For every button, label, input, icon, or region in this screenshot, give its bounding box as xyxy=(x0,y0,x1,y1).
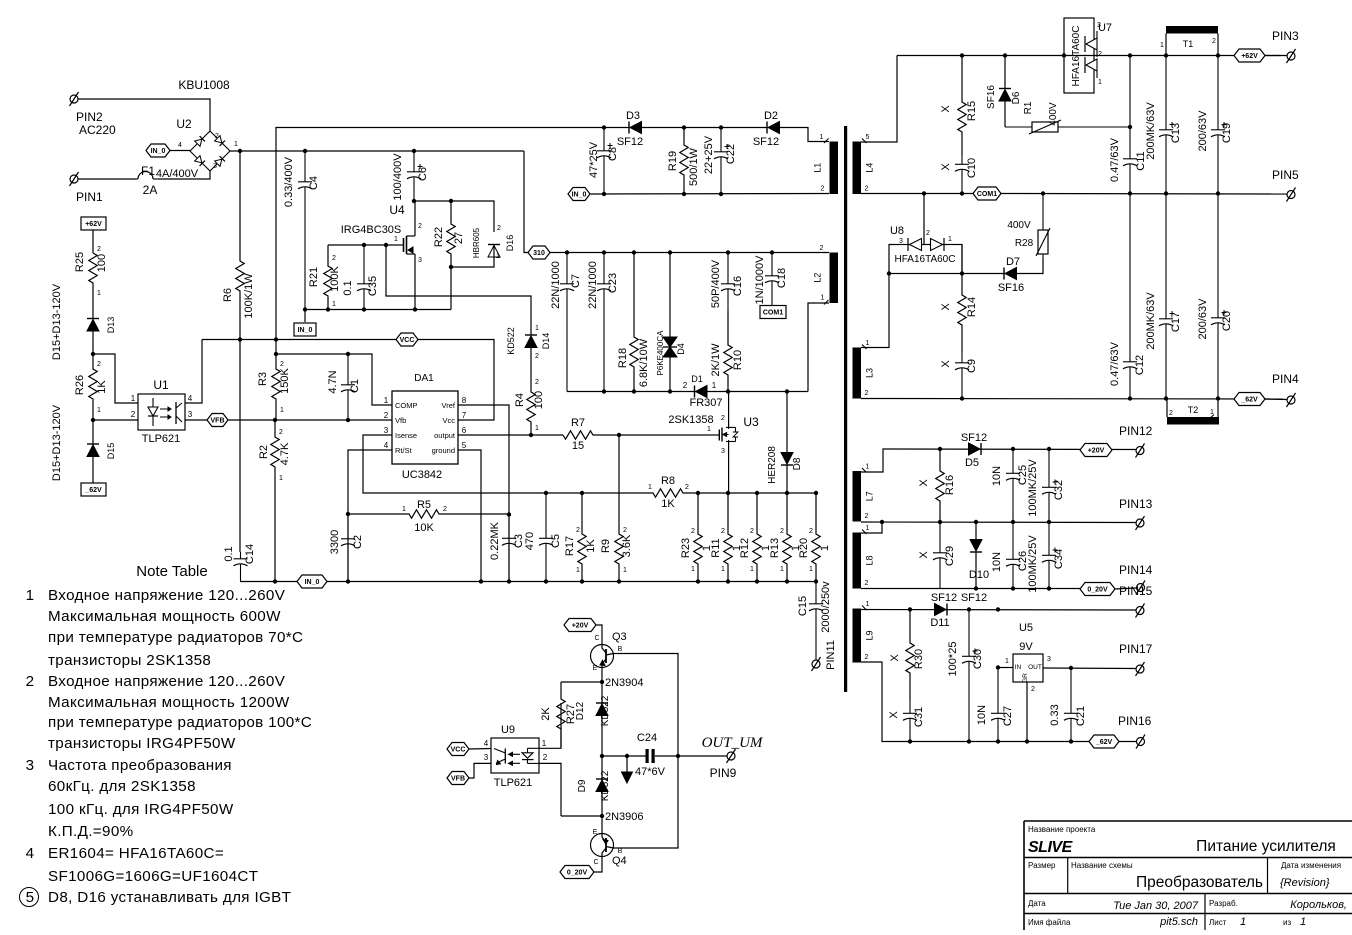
junction xyxy=(529,433,533,437)
svg-text:2: 2 xyxy=(332,255,336,262)
svg-text:C22: C22 xyxy=(725,144,737,164)
svg-text:60кГц. для 2SK1358: 60кГц. для 2SK1358 xyxy=(48,778,196,795)
svg-text:C27: C27 xyxy=(1002,706,1014,726)
svg-text:PIN4: PIN4 xyxy=(1272,372,1299,386)
pin 1 of R4 xyxy=(535,425,539,432)
label C23 xyxy=(607,273,619,293)
svg-text:D5: D5 xyxy=(965,457,979,469)
svg-text:L2: L2 xyxy=(813,273,823,283)
svg-text:X: X xyxy=(940,360,952,368)
svg-text:1: 1 xyxy=(821,295,825,302)
wire COM rail xyxy=(861,193,973,195)
svg-text:U3: U3 xyxy=(743,415,759,429)
power flag 0_20V driver xyxy=(560,866,594,879)
resistor R18 6.8K/10W xyxy=(630,253,638,392)
svg-text:Преобразователь: Преобразователь xyxy=(1136,874,1263,891)
value 10N of C26 xyxy=(991,552,1003,572)
svg-text:1: 1 xyxy=(535,325,539,332)
inductor L8 winding xyxy=(853,525,875,589)
value 1K of R17 xyxy=(585,539,597,553)
capacitor C11 0.47/63V xyxy=(1123,56,1137,194)
junction xyxy=(303,149,307,153)
label D16 xyxy=(505,235,515,252)
label X of C10 xyxy=(940,163,952,171)
terminal PIN17 xyxy=(1136,662,1145,676)
junction xyxy=(1069,666,1073,670)
diode D13 xyxy=(87,319,99,332)
svg-text:Корольков,: Корольков, xyxy=(1290,899,1347,911)
junction xyxy=(1128,53,1132,57)
capacitor C16 50P/400V xyxy=(721,253,735,311)
label R18 xyxy=(617,348,629,368)
svg-text:Максимальная мощность 1200W: Максимальная мощность 1200W xyxy=(48,694,290,711)
svg-text:0.1: 0.1 xyxy=(342,280,354,295)
junction xyxy=(726,389,730,393)
capacitor C17 200MK/63V xyxy=(1159,194,1175,399)
wire VCC flag to DA1 Vcc xyxy=(418,340,494,421)
pin 1 of R9 xyxy=(623,567,627,574)
label U2 xyxy=(176,117,192,131)
pin 1 of R17 xyxy=(576,567,580,574)
junction xyxy=(449,265,453,269)
label D11 xyxy=(930,617,949,629)
svg-text:F1: F1 xyxy=(141,164,155,178)
svg-text:E: E xyxy=(593,665,598,672)
svg-text:R3: R3 xyxy=(257,372,269,386)
junction xyxy=(632,389,636,393)
wire D10 column xyxy=(975,522,977,539)
junction xyxy=(580,491,584,495)
label C9 xyxy=(966,359,978,373)
svg-text:1: 1 xyxy=(535,425,539,432)
svg-text:X: X xyxy=(940,105,952,113)
pin 1 of U7 xyxy=(1098,79,1102,86)
svg-text:R16: R16 xyxy=(944,475,956,495)
svg-text:C23: C23 xyxy=(607,273,619,293)
junction xyxy=(682,192,686,196)
svg-text:200/63V: 200/63V xyxy=(1197,298,1209,340)
svg-text:2: 2 xyxy=(535,353,539,360)
label R26 xyxy=(74,375,86,395)
wire ground bus left xyxy=(240,581,297,583)
svg-text:+20V: +20V xyxy=(572,623,589,630)
svg-text:L4: L4 xyxy=(865,163,875,173)
svg-text:50P/400V: 50P/400V xyxy=(710,259,722,308)
MOSFET U3 2SK1358 xyxy=(707,392,738,494)
svg-text:C12: C12 xyxy=(1134,355,1146,375)
junction xyxy=(996,607,1000,611)
junction xyxy=(273,579,277,583)
junction xyxy=(1003,53,1007,57)
resistor R23 1 xyxy=(694,493,702,582)
svg-text:C4: C4 xyxy=(308,176,320,190)
value TLP621 of U1 xyxy=(142,433,181,445)
label T2 xyxy=(1188,405,1199,415)
svg-text:4: 4 xyxy=(484,739,489,748)
svg-text:2K: 2K xyxy=(540,707,552,721)
svg-text:R6: R6 xyxy=(222,288,234,302)
wire DA1 output line xyxy=(458,434,563,436)
svg-text:100K: 100K xyxy=(329,265,341,291)
svg-text:Note Table: Note Table xyxy=(136,563,207,580)
pin 2 of U1 xyxy=(131,410,136,419)
junction xyxy=(696,579,700,583)
svg-text:B: B xyxy=(618,646,623,653)
value 100K of R21 xyxy=(329,265,341,291)
wire D12 top lead xyxy=(601,682,603,703)
svg-text:Tue Jan 30, 2007: Tue Jan 30, 2007 xyxy=(1113,900,1199,912)
svg-text:1: 1 xyxy=(26,587,35,604)
svg-text:4: 4 xyxy=(178,142,182,149)
capacitor C30 100*25 xyxy=(962,610,978,742)
svg-text:2: 2 xyxy=(1098,51,1102,58)
svg-text:P6KE400CA: P6KE400CA xyxy=(656,330,665,376)
value 0.47/63V of C11 xyxy=(1109,137,1121,182)
pin 2 of U2 xyxy=(215,133,219,140)
capacitor C25 10N xyxy=(1006,449,1020,522)
svg-text:2: 2 xyxy=(821,186,825,193)
svg-text:2: 2 xyxy=(721,528,725,535)
junction xyxy=(565,250,569,254)
label U8 xyxy=(890,225,904,237)
label KBU1008 xyxy=(178,78,230,92)
wire VCC bus D3 segment xyxy=(604,127,629,129)
svg-text:D6: D6 xyxy=(1011,91,1022,104)
capacitor C35 0.1 xyxy=(357,245,371,310)
junction xyxy=(544,579,548,583)
label R14 xyxy=(966,297,978,317)
terminal OUT_UM PIN9 xyxy=(727,749,736,763)
wire D14 to R4 xyxy=(530,348,532,385)
svg-text:0.47/63V: 0.47/63V xyxy=(1109,137,1121,182)
svg-text:2A: 2A xyxy=(143,183,158,197)
svg-text:470: 470 xyxy=(524,532,536,550)
svg-text:2: 2 xyxy=(683,381,688,390)
svg-text:15: 15 xyxy=(572,440,584,452)
label PIN14 xyxy=(1119,563,1153,577)
value 22+25V of C22 xyxy=(703,135,715,174)
svg-text:X: X xyxy=(888,711,900,719)
svg-text:U9: U9 xyxy=(501,724,515,736)
label D15 xyxy=(106,443,116,460)
net flag IN_0 aux xyxy=(568,188,590,201)
wire C24 to OUT_UM xyxy=(655,755,727,757)
inductor L7 winding xyxy=(853,464,875,522)
junction xyxy=(346,352,350,356)
capacitor C3 0.22MK xyxy=(502,515,516,582)
svg-text:R8: R8 xyxy=(661,475,675,487)
svg-text:200/63V: 200/63V xyxy=(1197,110,1209,152)
junction xyxy=(600,754,604,758)
capacitor C7 22N/1000 xyxy=(560,253,574,392)
transistor Q4 2N3906 xyxy=(591,834,614,857)
capacitor C31 X xyxy=(903,700,917,742)
resistor R30 X xyxy=(906,610,914,701)
svg-text:D15: D15 xyxy=(106,443,116,460)
wire out node to C24 xyxy=(602,755,646,757)
value P6KE400CA of D4 xyxy=(656,330,665,376)
wire D9 to 2N3906 node xyxy=(601,792,603,816)
svg-text:L9: L9 xyxy=(865,630,875,640)
svg-text:1: 1 xyxy=(1300,916,1306,928)
label C27 xyxy=(1002,706,1014,726)
value 47*6V of C24 xyxy=(635,766,666,778)
resistor R11 1 xyxy=(724,493,732,582)
wire Q3 emitter xyxy=(601,667,603,682)
junction xyxy=(544,491,548,495)
label PIN3 xyxy=(1272,29,1299,43)
wire D6 to R1 xyxy=(1004,56,1006,89)
junction xyxy=(887,271,891,275)
wire VCC to U9 pin4 xyxy=(469,748,491,751)
pin 1 of R8 xyxy=(648,484,652,491)
resistor R12 1 xyxy=(753,493,761,582)
label X of R30 xyxy=(889,654,901,662)
pin 1 of R26 xyxy=(97,407,101,414)
wire R21 column xyxy=(327,245,329,262)
junction xyxy=(600,814,604,818)
pin 1 of R23 xyxy=(691,566,695,573)
wire U8 right to R14/D7 xyxy=(961,245,963,274)
wire VCC line xyxy=(202,339,396,341)
svg-text:Размер: Размер xyxy=(1028,861,1056,870)
wire Q4 collector to 0_20V xyxy=(594,856,602,872)
label C3 xyxy=(513,534,525,548)
power flag +20V right xyxy=(1080,444,1112,457)
svg-text:D15+D13-120V: D15+D13-120V xyxy=(51,283,63,360)
pin 1 of T1 xyxy=(1160,42,1164,49)
capacitor C32 100MK/25V xyxy=(1042,449,1058,522)
title block: Корольков xyxy=(1290,899,1347,911)
svg-text:COMP: COMP xyxy=(395,401,418,410)
wire isense line right xyxy=(686,492,816,494)
value 1K of R26 xyxy=(96,380,108,394)
resistor R14 X xyxy=(958,274,966,353)
power flag +62V xyxy=(81,217,106,230)
svg-text:C17: C17 xyxy=(1170,312,1182,332)
svg-text:200MK/63V: 200MK/63V xyxy=(1145,102,1157,160)
junction xyxy=(719,125,723,129)
svg-text:транзисторы 2SK1358: транзисторы 2SK1358 xyxy=(48,652,211,669)
pin 2 of U8 xyxy=(926,230,930,237)
wire PIN13 bus xyxy=(861,521,1136,524)
svg-text:Rt/St: Rt/St xyxy=(395,446,413,455)
svg-text:D3: D3 xyxy=(626,110,640,122)
capacitor C2 3300 xyxy=(341,514,355,582)
resistor R22 27 xyxy=(447,201,455,267)
wire DA1 ground column xyxy=(458,450,481,582)
wire HV rail drop to 310 flag xyxy=(524,151,528,253)
svg-text:X: X xyxy=(940,303,952,311)
svg-text:22N/1000: 22N/1000 xyxy=(587,261,599,309)
wire D8 column bottom xyxy=(786,465,788,493)
junction xyxy=(413,307,417,311)
svg-text:3: 3 xyxy=(484,753,489,762)
label R6 xyxy=(222,288,234,302)
junction xyxy=(814,579,818,583)
IC DA1 UC3842 xyxy=(384,391,467,464)
svg-text:10N: 10N xyxy=(991,466,1003,486)
junction xyxy=(922,191,926,195)
diode D15 xyxy=(87,444,99,457)
title block: Питание усилителя xyxy=(1196,838,1336,855)
svg-text:10N: 10N xyxy=(991,552,1003,572)
svg-text:3: 3 xyxy=(26,757,35,774)
svg-text:OUT_UM: OUT_UM xyxy=(702,735,764,751)
wire D2 to L1 xyxy=(780,128,829,142)
label X of R15 xyxy=(940,105,952,113)
svg-text:1: 1 xyxy=(648,484,652,491)
junction xyxy=(1164,396,1168,400)
wire T2 left leg xyxy=(1166,399,1168,418)
wire T1 left leg xyxy=(1165,34,1167,56)
value 2K of R27 xyxy=(540,707,552,721)
wire IN_0 box stub xyxy=(304,310,306,323)
resistor R13 1 xyxy=(783,493,791,582)
junction xyxy=(625,754,629,758)
pin 1 of U5 xyxy=(1005,658,1009,665)
svg-text:100 кГц. для IRG4PF50W: 100 кГц. для IRG4PF50W xyxy=(48,801,234,818)
value 1 of R13 xyxy=(790,545,802,551)
svg-text:+20V: +20V xyxy=(1088,448,1105,455)
title block frame xyxy=(1024,821,1352,930)
pin 2 of R3 xyxy=(280,361,284,368)
resistor R6 100K/1W xyxy=(236,151,244,340)
svg-text:1: 1 xyxy=(280,407,284,414)
junction xyxy=(632,250,636,254)
svg-text:C: C xyxy=(593,859,598,866)
label D6 xyxy=(1011,91,1022,104)
label C14 xyxy=(244,544,256,564)
capacitor C13 200MK/63V xyxy=(1159,56,1175,194)
title block: Tue Jan 30, 2007 xyxy=(1113,900,1199,912)
voltage regulator U5 9V xyxy=(1013,654,1043,683)
value 400V of R1 xyxy=(1048,102,1059,126)
junction xyxy=(412,199,416,203)
value 1 of R12 xyxy=(760,545,772,551)
svg-text:5: 5 xyxy=(866,134,870,141)
svg-text:R13: R13 xyxy=(769,538,781,558)
junction xyxy=(479,579,483,583)
label D7 xyxy=(1006,256,1020,268)
svg-text:C19: C19 xyxy=(1221,123,1233,143)
label PIN4 xyxy=(1272,372,1299,386)
junction xyxy=(908,607,912,611)
svg-text:1: 1 xyxy=(1005,658,1009,665)
label C7 xyxy=(570,274,582,288)
svg-text:100K/1W: 100K/1W xyxy=(243,273,255,319)
svg-text:1: 1 xyxy=(691,566,695,573)
label R27 xyxy=(565,704,577,724)
svg-text:2: 2 xyxy=(280,361,284,368)
svg-text:D16: D16 xyxy=(505,235,515,252)
svg-text:L8: L8 xyxy=(865,555,875,565)
svg-text:1: 1 xyxy=(623,567,627,574)
wire PIN15 line xyxy=(861,609,1136,612)
svg-text:2: 2 xyxy=(820,245,824,252)
label D2 xyxy=(764,110,778,122)
value FR307 of D1 xyxy=(689,397,722,409)
capacitor C27 10N xyxy=(991,668,1005,742)
svg-text:1: 1 xyxy=(780,566,784,573)
wire D7 line xyxy=(962,273,1004,275)
svg-text:C5: C5 xyxy=(550,534,562,548)
svg-text:1: 1 xyxy=(948,236,952,243)
value 22N/1000 of C7 xyxy=(550,261,562,309)
capacitor C34 100MK/25V xyxy=(1042,522,1058,589)
pin 2 of U9 xyxy=(543,753,548,762)
junction xyxy=(770,250,774,254)
value HBR605 of D16 xyxy=(472,227,481,258)
value 6.8K/10W of R18 xyxy=(638,338,650,387)
wire L4 pin1 riser xyxy=(861,56,897,143)
label D8 xyxy=(792,457,803,470)
svg-text:Максимальная мощность 600W: Максимальная мощность 600W xyxy=(48,608,281,625)
wire Q4 emitter xyxy=(601,816,603,834)
wire D3 to C22 xyxy=(642,127,767,129)
junction xyxy=(960,396,964,400)
capacitor C15 2000/250v xyxy=(809,582,823,661)
svg-text:R30: R30 xyxy=(913,649,925,669)
capacitor C4 0.33/400V xyxy=(298,151,312,310)
value 2SK1358 of U3 xyxy=(668,414,713,426)
svg-text:D15+D13-120V: D15+D13-120V xyxy=(51,404,63,481)
label T1 xyxy=(1183,39,1194,49)
junction xyxy=(676,754,680,758)
junction xyxy=(238,337,242,341)
label R8 xyxy=(661,475,675,487)
pin B of Q3 xyxy=(618,646,623,653)
value 200/63V of C20 xyxy=(1197,298,1209,340)
svg-text:2: 2 xyxy=(26,673,35,690)
capacitor C26 10N xyxy=(1006,522,1020,589)
svg-text:E: E xyxy=(593,829,598,836)
svg-text:C34: C34 xyxy=(1053,549,1065,569)
terminal PIN1 xyxy=(70,172,79,186)
label R19 xyxy=(667,151,679,171)
value 1 of R11 xyxy=(731,545,743,551)
pin 2 of R17 xyxy=(576,527,580,534)
svg-text:ER1604= HFA16TA60C=: ER1604= HFA16TA60C= xyxy=(48,845,224,862)
net label D15+D13-120V lower xyxy=(51,404,63,481)
svg-text:Название проекта: Название проекта xyxy=(1028,825,1096,834)
capacitor C1 4.7N xyxy=(341,354,355,420)
svg-text:100/400V: 100/400V xyxy=(392,153,404,201)
label R12 xyxy=(739,538,751,558)
svg-text:400V: 400V xyxy=(1048,102,1059,126)
svg-text:PIN11: PIN11 xyxy=(825,640,837,670)
label X of C31 xyxy=(888,711,900,719)
value SF12 of D11 xyxy=(931,592,957,604)
label C1 xyxy=(349,379,361,393)
pin 1 of U1 xyxy=(131,394,136,403)
junction xyxy=(908,739,912,743)
svg-text:R12: R12 xyxy=(739,538,751,558)
junction xyxy=(719,192,723,196)
svg-text:1: 1 xyxy=(866,464,870,471)
svg-text:6.8K/10W: 6.8K/10W xyxy=(638,338,650,387)
label C13 xyxy=(1170,123,1182,143)
svg-text:2N3906: 2N3906 xyxy=(605,811,644,823)
capacitor C23 22N/1000 xyxy=(597,253,611,392)
svg-text:500/1W: 500/1W xyxy=(688,147,700,186)
pin 1 of R11 xyxy=(721,566,725,573)
resistor R5 10K xyxy=(348,510,509,518)
label PIN9 xyxy=(710,766,737,780)
svg-text:7: 7 xyxy=(462,411,467,420)
wire -62V rail xyxy=(861,398,1283,401)
inductor L1 winding xyxy=(813,134,839,194)
